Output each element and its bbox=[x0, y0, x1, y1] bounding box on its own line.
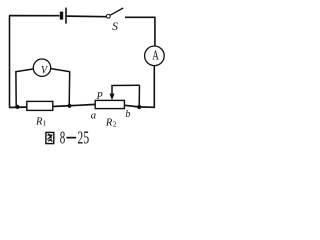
rheostat R2 wiper arrow (filled) bbox=[110, 86, 115, 101]
ammeter A circle bbox=[145, 46, 165, 66]
resistor R1 body (box over wire) bbox=[27, 101, 53, 110]
wire switch fixed contact to top-right corner bbox=[125, 16, 155, 18]
label P (wiper) bbox=[96, 91, 103, 102]
wire wiper drop down to bottom wire bbox=[138, 85, 140, 107]
svg-text:P: P bbox=[96, 91, 103, 102]
wire top from left corner to battery bbox=[9, 15, 60, 17]
caption: dash bbox=[66, 137, 76, 139]
wire bottom horizontal bbox=[9, 104, 155, 107]
battery (cell): short thick negative plate bbox=[60, 12, 63, 20]
battery (cell): long thin positive plate bbox=[65, 8, 67, 24]
wire left vertical (node loop left) bbox=[9, 16, 11, 108]
svg-text:25: 25 bbox=[77, 128, 89, 148]
junction node dot (voltmeter right to bottom wire) bbox=[67, 104, 71, 108]
caption: Chinese character 图 (drawn) bbox=[46, 132, 54, 143]
wire battery to switch pivot bbox=[67, 15, 107, 18]
caption: 25 bbox=[77, 128, 89, 148]
voltmeter loop: top-right horizontal wire bbox=[50, 69, 70, 72]
label A inside ammeter bbox=[152, 49, 159, 63]
voltmeter loop: left branch vertical wire bbox=[15, 71, 17, 107]
switch S pivot circle bbox=[106, 14, 110, 18]
svg-text:1: 1 bbox=[43, 119, 47, 128]
voltmeter loop: right branch vertical wire bbox=[68, 72, 71, 106]
svg-text:2: 2 bbox=[113, 120, 117, 129]
svg-text:b: b bbox=[125, 109, 130, 120]
wire right vertical down to ammeter bbox=[154, 17, 156, 46]
label a (left terminal) bbox=[91, 110, 97, 122]
junction node dot (voltmeter left to bottom wire) bbox=[15, 105, 19, 109]
svg-text:8: 8 bbox=[60, 128, 65, 148]
wire ammeter to bottom-right corner bbox=[153, 66, 155, 108]
svg-text:R: R bbox=[35, 117, 43, 128]
switch S blade (open) bbox=[110, 8, 123, 15]
svg-text:S: S bbox=[112, 21, 118, 33]
svg-text:A: A bbox=[152, 49, 159, 63]
caption: 8 bbox=[60, 128, 65, 148]
label R1 bbox=[35, 117, 47, 128]
label b (right terminal) bbox=[125, 109, 130, 120]
wire wiper to right drop bbox=[111, 84, 139, 86]
voltmeter loop: top-left horizontal wire to voltmeter bbox=[15, 69, 34, 72]
rheostat R2 body (box over wire) bbox=[95, 100, 124, 108]
junction node dot (wiper branch to bottom wire) bbox=[137, 105, 141, 109]
svg-text:a: a bbox=[91, 110, 97, 122]
label S bbox=[112, 21, 118, 33]
voltmeter V circle bbox=[33, 59, 50, 76]
label V inside voltmeter bbox=[41, 64, 48, 77]
svg-text:R: R bbox=[105, 118, 113, 129]
label R2 bbox=[105, 118, 117, 129]
